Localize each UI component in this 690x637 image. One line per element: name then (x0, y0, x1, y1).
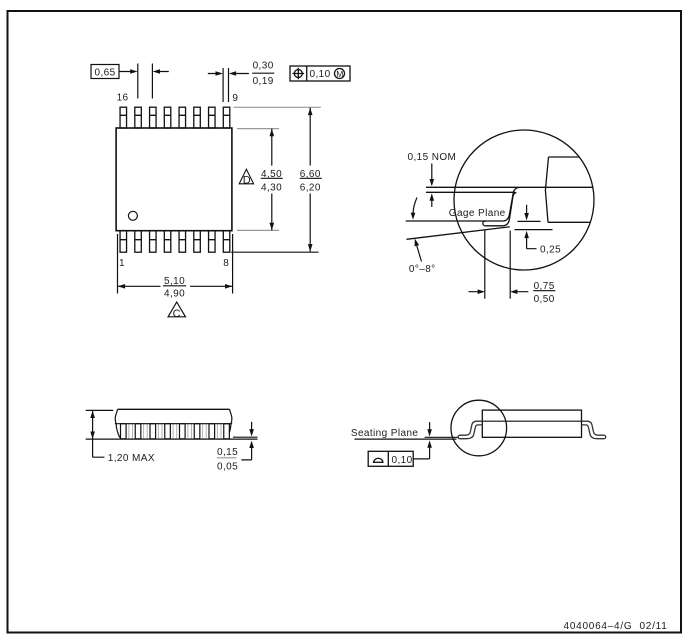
svg-text:8: 8 (223, 258, 229, 269)
svg-text:0,05: 0,05 (217, 462, 238, 473)
lead top surface line (426, 186, 593, 188)
svg-text:0,19: 0,19 (253, 76, 274, 87)
svg-text:0,10: 0,10 (310, 69, 331, 80)
extension lines right side (231, 107, 321, 252)
dimension 0,15/0,05 (251, 422, 253, 432)
svg-text:6,20: 6,20 (300, 182, 321, 193)
seating plane line under side view (86, 438, 258, 440)
flag note triangle D (239, 169, 253, 184)
pin 1 index circle (128, 211, 137, 220)
left end cap (115, 409, 123, 437)
dimension 4,50/4,30 (271, 129, 273, 231)
left gull-wing lead (458, 421, 482, 439)
dimension 6,60/6,20 (309, 108, 311, 252)
near row pins (black) (121, 424, 230, 439)
dimension 0,75/0,50 (469, 230, 529, 299)
svg-text:4,30: 4,30 (261, 182, 282, 193)
svg-text:1,20 MAX: 1,20 MAX (108, 453, 155, 464)
body parting line (115, 423, 232, 425)
body section top line (549, 156, 580, 158)
body bottom line (548, 221, 590, 223)
svg-text:0,30: 0,30 (253, 61, 274, 72)
package body outline (116, 128, 232, 231)
dimension 5,10/4,90 (118, 234, 233, 294)
arrows at seating plane (429, 422, 431, 432)
top pin row (pins 16..9) (120, 107, 230, 128)
svg-text:9: 9 (232, 93, 238, 104)
svg-text:Gage Plane: Gage Plane (449, 208, 506, 219)
svg-text:0°–8°: 0°–8° (409, 264, 436, 275)
lead bottom extension line (426, 191, 515, 193)
dimension 0,65 pitch (91, 64, 169, 99)
svg-text:M: M (336, 69, 343, 79)
svg-text:0,15: 0,15 (217, 447, 238, 458)
svg-text:4040064–4/G 02/11: 4040064–4/G 02/11 (564, 621, 668, 632)
far row pins (gray) (129, 424, 221, 439)
angle dimension 0-8 (413, 198, 417, 214)
detail circle (454, 130, 594, 270)
right gull-wing lead (582, 421, 606, 439)
svg-text:0,50: 0,50 (534, 294, 555, 305)
body top (118, 408, 230, 410)
lead bend outline outer (486, 192, 517, 225)
dimension 0,25 (526, 205, 528, 216)
0-8 degree sloped line (407, 227, 510, 240)
svg-text:0,15 NOM: 0,15 NOM (408, 152, 457, 163)
gage plane line (406, 220, 486, 222)
svg-text:4,90: 4,90 (164, 289, 185, 300)
lead foot tip (483, 221, 486, 226)
svg-text:16: 16 (117, 93, 129, 104)
right end cap (224, 409, 232, 437)
pin number labels (117, 93, 239, 269)
svg-text:0,10: 0,10 (392, 455, 413, 466)
standoff upper line (233, 436, 258, 438)
flatness feature box (368, 451, 413, 466)
svg-text:0,65: 0,65 (95, 67, 116, 78)
dimension 0,30/0,19 lead width (208, 68, 274, 102)
flag note triangle C (168, 302, 185, 317)
svg-text:1: 1 (119, 258, 125, 269)
seating plane lines (355, 438, 457, 440)
svg-text:Seating Plane: Seating Plane (351, 428, 419, 439)
feature control frame (position 0,10 M) (290, 66, 350, 81)
svg-text:C: C (173, 308, 181, 320)
bottom pin row (pins 1..8) (120, 231, 230, 253)
dimension 1,20 MAX (86, 409, 114, 411)
lead bend outline inner (485, 188, 519, 222)
svg-text:0,25: 0,25 (540, 244, 561, 255)
detail circle (zoom reference) (451, 400, 507, 456)
package body end view (482, 410, 581, 437)
body section left edge (545, 157, 548, 222)
svg-text:D: D (243, 174, 251, 186)
svg-text:5,10: 5,10 (164, 276, 185, 287)
